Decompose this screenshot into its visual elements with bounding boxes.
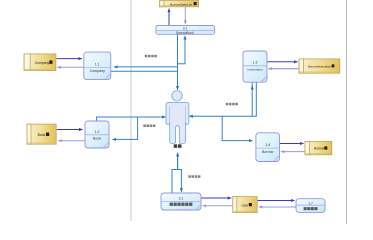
svg-text:Company: Company: [90, 69, 106, 73]
svg-text:BorrowBook: BorrowBook: [176, 31, 194, 35]
svg-text:Information: Information: [247, 67, 263, 71]
svg-text:Book: Book: [38, 133, 46, 137]
svg-text:BorrowStateList: BorrowStateList: [170, 2, 192, 6]
svg-text:1.3: 1.3: [253, 61, 258, 65]
svg-text:3.2: 3.2: [183, 26, 188, 30]
svg-text:1.1: 1.1: [95, 62, 100, 66]
svg-text:1.7: 1.7: [308, 201, 313, 205]
svg-text:BorrowInformation: BorrowInformation: [308, 64, 331, 68]
svg-text:1.4: 1.4: [265, 143, 270, 147]
svg-text:Borrow: Borrow: [314, 147, 325, 151]
svg-text:Book: Book: [93, 137, 101, 141]
svg-text:3.1: 3.1: [179, 197, 184, 201]
svg-text:User: User: [242, 203, 250, 207]
svg-text:Company: Company: [35, 61, 50, 65]
svg-text:1.2: 1.2: [95, 130, 100, 134]
svg-text:Borrow: Borrow: [262, 150, 274, 154]
